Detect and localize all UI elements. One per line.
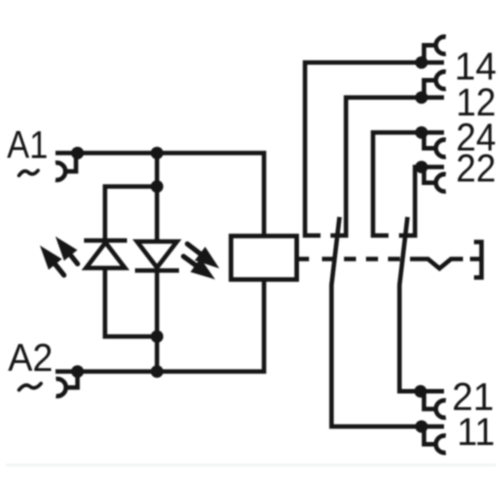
node on A1 line above LEDs (151, 147, 164, 160)
node LED branch split (151, 180, 164, 193)
terminal 22 clamp (424, 169, 436, 183)
node 14 (415, 56, 428, 69)
svg-text:21: 21 (452, 376, 494, 419)
wire contact 24 with fixed contact foot (373, 133, 444, 236)
contact arm pole 2 to terminal 21 (400, 217, 445, 391)
LED D1 light arrow 1 (42, 248, 60, 268)
svg-text:22: 22 (456, 148, 496, 191)
faint separator line (6, 464, 496, 467)
LED D2 triangle (137, 242, 177, 268)
wire left LED branch top (105, 187, 157, 242)
node LED rejoin (151, 330, 164, 343)
LED D2 cathode bar (135, 268, 179, 273)
node A1 junction (71, 147, 84, 160)
svg-text:A1: A1 (7, 124, 48, 167)
relay coil K1 (231, 236, 297, 280)
terminal 11 clamp (424, 429, 436, 445)
contact arm pole 1 to terminal 11 (332, 217, 445, 427)
terminal 24 clamp (424, 135, 436, 149)
wire A1 to coil top (56, 153, 265, 236)
LED D2 light arrow 1 (197, 249, 217, 267)
linkage end bracket (474, 242, 482, 278)
svg-text:A2: A2 (8, 337, 53, 380)
wire contact 22 with fixed contact foot (399, 167, 444, 236)
wire LED1 bottom to join (105, 268, 157, 337)
terminal 12 clamp (424, 80, 436, 95)
node 22 (415, 161, 428, 174)
LED D1 triangle (86, 243, 125, 269)
node 24 (415, 126, 428, 139)
node 21 (414, 385, 427, 398)
LED D1 cathode bar (84, 238, 127, 243)
wire contact 14 with fixed contact foot (305, 63, 444, 236)
mechanical linkage dashes (297, 257, 400, 262)
LED D1 light arrow 2 (58, 239, 76, 259)
terminal 14 clamp (424, 45, 436, 60)
wire A2 to coil bottom (56, 280, 265, 372)
AC tilde under A1 (19, 171, 38, 176)
node A2 junction (71, 365, 84, 378)
linkage V actuator (410, 259, 463, 269)
LED D2 light arrow 2 (192, 260, 212, 277)
wire contact 12 with fixed contact foot (331, 98, 445, 236)
wire LED2 bottom (155, 271, 160, 372)
node 12 (415, 91, 428, 104)
terminal 21 clamp (424, 393, 436, 409)
AC tilde under A2 (19, 384, 41, 391)
node 11 (415, 420, 428, 433)
terminal A1 clamp (65, 154, 76, 171)
wire main vertical through LED2 top (155, 153, 160, 242)
node on A2 line (151, 365, 164, 378)
terminal A2 clamp (66, 373, 78, 388)
